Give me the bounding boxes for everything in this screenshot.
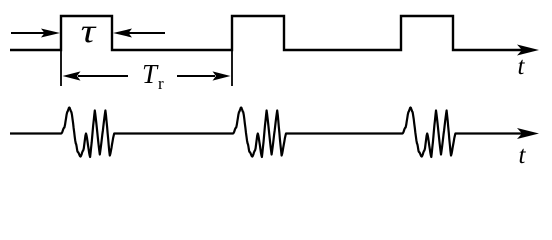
svg-text:τ: τ — [81, 13, 98, 50]
svg-text:r: r — [158, 74, 164, 93]
svg-text:t: t — [519, 142, 527, 166]
top time-axis arrowhead — [517, 45, 539, 56]
tau left arrowhead — [41, 29, 60, 38]
tau left dimension line — [11, 32, 48, 34]
svg-text:T: T — [142, 59, 159, 89]
RF pulse burst waveform (bottom axis with three sinusoidal bursts) — [10, 108, 524, 158]
Tr dimension right arrowhead — [213, 71, 231, 80]
Tr dimension left line — [78, 75, 128, 77]
tau right arrowhead — [113, 29, 132, 38]
extension line at second pulse leading edge — [231, 50, 233, 86]
tau right dimension line — [126, 32, 165, 34]
Tr dimension right line — [177, 75, 215, 77]
svg-text:t: t — [518, 53, 526, 80]
extension line at first pulse leading edge — [60, 50, 62, 86]
bottom time-axis arrowhead — [517, 128, 539, 139]
Tr dimension left arrowhead — [63, 71, 81, 80]
pulse train waveform (top axis with three rectangular pulses) — [10, 16, 524, 50]
